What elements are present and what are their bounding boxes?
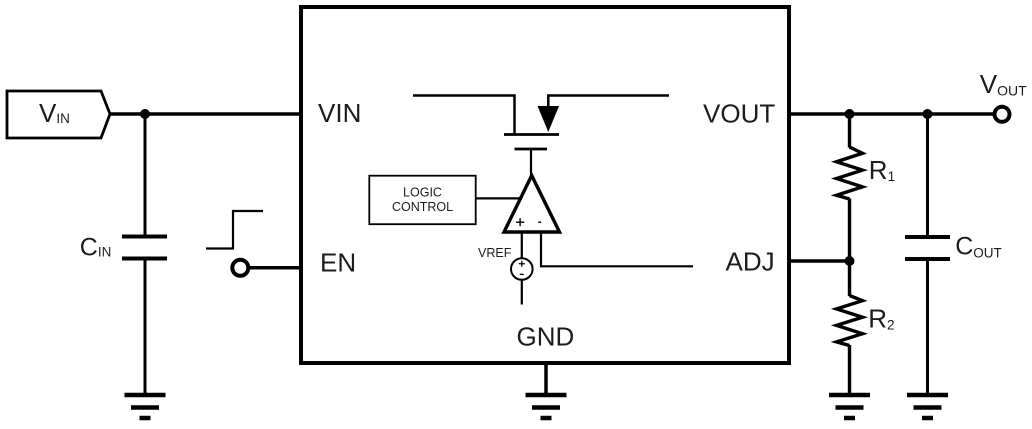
ground (below GND pin) [526, 395, 567, 418]
wire VIN flag to VIN pin [110, 112, 301, 116]
output terminal VOUT [995, 107, 1010, 122]
wire ADJ pin to feedback node [789, 259, 850, 263]
svg-text:EN: EN [320, 248, 356, 278]
node feedback junction [845, 256, 855, 266]
resistor R2 [837, 261, 895, 393]
wire CIN to ground [144, 261, 147, 394]
svg-text:LOGIC: LOGIC [403, 186, 442, 200]
EN step waveform symbol [206, 211, 263, 249]
wire EN terminal to EN pin [250, 266, 301, 270]
wire COUT to ground [926, 261, 929, 393]
capacitor COUT [905, 232, 1002, 260]
transistor Q1 channel bar [504, 133, 559, 136]
wire error amp plus input to VREF [521, 232, 523, 259]
wire input node to CIN [144, 114, 147, 235]
transistor Q1 drain arrow [538, 106, 560, 132]
wire error amp minus input to ADJ [541, 232, 693, 266]
wire pass-transistor drain (to VOUT side) [548, 96, 669, 109]
svg-text:CONTROL: CONTROL [392, 200, 453, 214]
wire logic control to error amp [476, 197, 520, 199]
svg-text:ADJ: ADJ [726, 247, 775, 277]
svg-text:VOUT: VOUT [703, 99, 775, 129]
svg-text:GND: GND [517, 322, 575, 352]
logic control block [369, 176, 475, 225]
wire VOUT node to COUT [926, 114, 929, 235]
EN terminal circle [232, 260, 248, 276]
ground (below COUT) [907, 395, 948, 418]
svg-text:VREF: VREF [478, 246, 512, 260]
op-amp error amplifier [504, 176, 560, 233]
wire VREF bottom lead [521, 280, 523, 305]
ground (below CIN) [125, 395, 166, 418]
wire gate to error amp [530, 149, 532, 178]
node VOUT junction at R1 [845, 109, 855, 119]
svg-text:VIN: VIN [318, 98, 361, 128]
voltage source VREF [478, 246, 533, 280]
node VOUT junction at COUT [923, 109, 933, 119]
wire GND pin lead [544, 363, 548, 393]
wire VOUT pin to output terminal [789, 112, 994, 116]
IC box U1 [301, 7, 789, 363]
node input junction [140, 109, 150, 119]
resistor R1 [837, 114, 896, 261]
transistor Q1 gate bar [515, 148, 548, 151]
wire pass-transistor source (from VIN side) [413, 96, 515, 134]
power flag VIN [7, 91, 110, 138]
capacitor CIN [80, 234, 167, 262]
ground (below R2) [829, 395, 870, 418]
